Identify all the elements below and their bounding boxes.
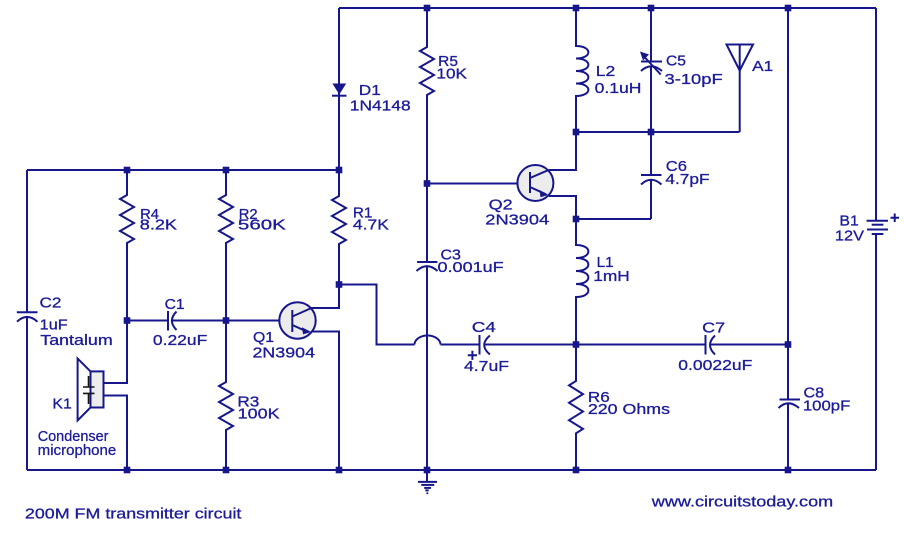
wire right distribution branch upper <box>787 8 789 400</box>
svg-text:0.22uF: 0.22uF <box>153 332 207 349</box>
svg-text:A1: A1 <box>752 58 773 75</box>
wire D1 branch <box>338 8 340 170</box>
microphone K1 <box>38 359 117 460</box>
svg-text:4.7K: 4.7K <box>353 217 389 234</box>
node top rail C5 <box>648 5 655 12</box>
resistor R4 <box>120 170 177 321</box>
resistor R1 <box>332 170 389 285</box>
node ground rail R6 <box>573 467 580 474</box>
resistor R3 <box>219 321 280 471</box>
wire left branch upper segment <box>26 170 28 312</box>
capacitor C6 <box>641 158 710 188</box>
wire Q2 collector <box>549 132 576 170</box>
node ground rail microphone <box>124 467 131 474</box>
svg-text:100K: 100K <box>238 406 280 423</box>
wire C6 lower lead <box>650 180 652 219</box>
wire top supply rail <box>339 7 876 9</box>
wire C6 upper lead <box>650 132 652 175</box>
svg-text:100pF: 100pF <box>803 397 850 414</box>
wire C7 to C8 branch <box>711 344 789 346</box>
svg-text:C5: C5 <box>666 52 686 69</box>
antenna A1 <box>727 45 774 133</box>
node ground rail R3 <box>223 467 230 474</box>
wire microphone coupling <box>127 320 168 322</box>
svg-text:microphone: microphone <box>38 442 117 459</box>
ground <box>418 470 437 494</box>
svg-text:Tantalum: Tantalum <box>40 332 112 349</box>
wire microphone lower lead <box>104 396 128 471</box>
inductor L2 <box>576 8 642 132</box>
wire C5 upper lead <box>650 8 652 62</box>
wire Q1 collector <box>311 285 339 309</box>
wire R6 junction to C7 <box>576 344 705 346</box>
node C1 wire R4 <box>124 317 131 324</box>
svg-text:200M FM transmitter circuit: 200M FM transmitter circuit <box>25 505 242 522</box>
node C4 wire R6 <box>573 341 580 348</box>
resistor R6 <box>569 345 670 471</box>
capacitor C1 <box>153 296 207 349</box>
node C7 wire C8 branch <box>785 341 792 348</box>
capacitor C8 <box>779 385 851 415</box>
svg-text:K1: K1 <box>52 396 71 413</box>
node bias rail R4 <box>124 167 131 174</box>
wire Q1 emitter to ground rail <box>311 332 339 471</box>
wire C8 lower lead <box>787 404 789 471</box>
svg-text:560K: 560K <box>238 217 286 234</box>
wire upper-left bias rail <box>27 169 339 171</box>
capacitor C7 <box>678 320 752 374</box>
inductor L1 <box>576 219 630 345</box>
svg-text:0.001uF: 0.001uF <box>438 259 504 276</box>
wire hop to C4 <box>441 344 480 346</box>
svg-text:2N3904: 2N3904 <box>253 345 316 362</box>
svg-text:C2: C2 <box>40 295 62 312</box>
node bias rail R1 <box>336 167 343 174</box>
capacitor C4 <box>464 319 509 375</box>
svg-text:C1: C1 <box>165 296 185 313</box>
wire collector junction to hop <box>339 285 415 345</box>
node Q2 base R5 <box>424 180 431 187</box>
node Q2 emitter junction <box>573 216 580 223</box>
wire C4 to R6 junction <box>485 344 577 346</box>
svg-text:220 Ohms: 220 Ohms <box>588 401 670 418</box>
svg-text:3-10pF: 3-10pF <box>665 71 723 88</box>
wire Q2 emitter <box>549 196 576 219</box>
node tank rail C5 <box>648 129 655 136</box>
wire C5 lower lead <box>650 67 652 133</box>
wire Q2 base <box>427 183 519 185</box>
wire battery negative lead <box>875 235 877 471</box>
svg-text:2N3904: 2N3904 <box>485 211 549 228</box>
wire oscillator tank rail <box>576 131 740 133</box>
svg-text:10K: 10K <box>436 65 467 82</box>
node ground rail C8 <box>785 467 792 474</box>
capacitor C5 (variable) <box>640 52 723 88</box>
svg-text:0.0022uF: 0.0022uF <box>678 357 752 374</box>
svg-text:8.2K: 8.2K <box>140 216 177 233</box>
resistor R2 <box>219 170 286 321</box>
svg-text:Q1: Q1 <box>253 329 274 346</box>
transistor Q2 <box>485 165 553 228</box>
svg-text:C7: C7 <box>702 320 725 337</box>
svg-text:4.7pF: 4.7pF <box>665 171 709 188</box>
svg-text:C4: C4 <box>472 319 496 336</box>
capacitor C3 <box>417 246 504 276</box>
node top rail R5 <box>424 5 431 12</box>
wire C1 to Q1 base <box>173 320 280 322</box>
wire microphone upper lead <box>104 321 128 384</box>
capacitor C2 <box>17 295 113 350</box>
node bias rail R2 <box>223 167 230 174</box>
battery B1 <box>835 213 899 245</box>
node Q1 collector junction <box>336 281 343 288</box>
transistor Q1 <box>253 302 316 361</box>
svg-text:4.7uF: 4.7uF <box>464 358 509 375</box>
wire emitter junction to C6 <box>576 218 651 220</box>
wire C3 to ground rail <box>426 267 428 471</box>
node top rail right branch <box>785 5 792 12</box>
svg-text:D1: D1 <box>359 82 381 99</box>
svg-text:www.circuitstoday.com: www.circuitstoday.com <box>651 494 834 511</box>
resistor R5 <box>420 8 467 184</box>
diode D1 <box>332 82 411 115</box>
wire bottom ground rail <box>27 469 876 471</box>
svg-text:12V: 12V <box>835 228 864 245</box>
svg-text:1uF: 1uF <box>40 317 68 334</box>
wire left branch lower segment <box>26 317 28 470</box>
svg-text:L2: L2 <box>596 63 616 80</box>
node ground rail Q1 emitter <box>336 467 343 474</box>
node ground rail ground symbol <box>424 467 431 474</box>
wire hop over ground branch <box>415 336 441 345</box>
svg-text:0.1uH: 0.1uH <box>595 80 642 97</box>
node tank rail L2 <box>573 129 580 136</box>
wire R5 to C3 <box>426 184 428 262</box>
node C1 wire R2 R3 <box>223 317 230 324</box>
svg-text:1N4148: 1N4148 <box>350 98 411 115</box>
node top rail L2 <box>573 5 580 12</box>
svg-text:1mH: 1mH <box>593 268 630 285</box>
wire battery positive lead <box>875 8 877 220</box>
